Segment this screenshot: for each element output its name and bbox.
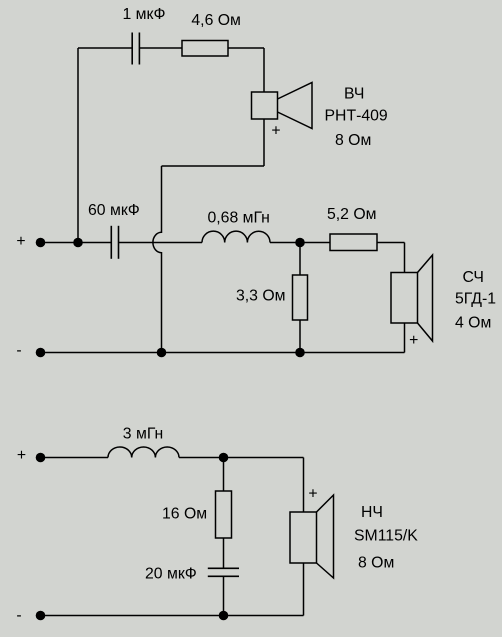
- label СЧ: [463, 269, 484, 286]
- svg-text:+: +: [409, 332, 418, 349]
- svg-text:СЧ: СЧ: [463, 269, 484, 286]
- svg-text:5ГД-1: 5ГД-1: [455, 291, 496, 308]
- svg-text:1 мкФ: 1 мкФ: [123, 6, 166, 23]
- speaker BA1 ВЧ horn: [278, 83, 313, 129]
- svg-text:РНТ-409: РНТ-409: [325, 108, 388, 125]
- junction node R3 on minus wire: [295, 348, 305, 358]
- plus polarity mark of ВЧ speaker: [271, 122, 280, 139]
- wire tweeter return horizontal: [162, 165, 265, 167]
- terminal node middle plus: [36, 238, 46, 248]
- value label 20 мкФ: [145, 566, 197, 583]
- label НЧ: [361, 504, 383, 521]
- junction node to R4: [219, 453, 229, 463]
- svg-text:+: +: [16, 233, 25, 250]
- terminal node middle minus: [36, 348, 46, 358]
- svg-text:0,68 мГн: 0,68 мГн: [208, 210, 270, 227]
- value label 0,68 мГн: [208, 210, 270, 227]
- label 4 Ом: [455, 315, 491, 332]
- svg-text:3,3 Ом: 3,3 Ом: [236, 288, 286, 305]
- wire capacitor C1 to resistor R1: [139, 47, 182, 49]
- wire capacitor C3 down to minus wire: [223, 576, 225, 615]
- junction node C3 on minus wire: [219, 611, 229, 621]
- terminal node bottom plus: [36, 453, 46, 463]
- svg-text:5,2 Ом: 5,2 Ом: [327, 206, 377, 223]
- terminal node bottom minus: [36, 611, 46, 621]
- svg-text:16 Ом: 16 Ом: [162, 506, 207, 523]
- wire plus terminal to inductor L2: [41, 457, 109, 459]
- svg-text:-: -: [16, 607, 21, 624]
- value label 60 мкФ: [88, 202, 140, 219]
- capacitor C2: [111, 226, 118, 259]
- label 8 Ом tweeter: [335, 132, 371, 149]
- plus polarity mark of СЧ speaker: [409, 332, 418, 349]
- wire tweeter return down with hop over mid wire: [153, 166, 162, 353]
- svg-text:4 Ом: 4 Ом: [455, 315, 491, 332]
- svg-text:60 мкФ: 60 мкФ: [88, 202, 140, 219]
- label РНТ-409: [325, 108, 388, 125]
- capacitor C1: [132, 33, 139, 65]
- svg-text:SM115/K: SM115/K: [354, 528, 418, 545]
- speaker BA1 ВЧ box: [252, 92, 278, 119]
- speaker BA3 НЧ box: [290, 512, 317, 563]
- value label 1 мкФ: [123, 6, 166, 23]
- svg-text:4,6 Ом: 4,6 Ом: [191, 12, 241, 29]
- svg-text:8 Ом: 8 Ом: [335, 132, 371, 149]
- wire resistor R1 to corner: [228, 47, 264, 49]
- svg-text:НЧ: НЧ: [361, 504, 383, 521]
- junction node mid to R3: [295, 238, 305, 248]
- minus wire middle: [41, 352, 405, 354]
- plus terminal label bottom: [17, 447, 26, 464]
- svg-text:ВЧ: ВЧ: [344, 86, 364, 103]
- wire junction down to resistor R4: [223, 458, 225, 492]
- wire top branch to capacitor C1: [78, 47, 132, 49]
- wire minus wire up to woofer: [303, 563, 305, 616]
- wire inductor L2 to corner: [179, 457, 304, 459]
- wire resistor R2 to corner: [377, 242, 405, 244]
- resistor R4: [216, 491, 232, 538]
- inductor L2: [108, 447, 179, 458]
- svg-text:+: +: [271, 122, 280, 139]
- svg-text:-: -: [16, 342, 21, 359]
- svg-text:8 Ом: 8 Ом: [358, 555, 394, 572]
- value label 3,3 Ом: [236, 288, 286, 305]
- svg-text:+: +: [17, 447, 26, 464]
- svg-text:20 мкФ: 20 мкФ: [145, 566, 197, 583]
- plus terminal label middle: [16, 233, 25, 250]
- svg-text:3 мГн: 3 мГн: [123, 425, 163, 442]
- label 5ГД-1: [455, 291, 496, 308]
- minus wire bottom: [41, 615, 304, 617]
- plus polarity mark of НЧ speaker: [308, 485, 317, 502]
- svg-text:+: +: [308, 485, 317, 502]
- wire down to tweeter: [263, 48, 265, 92]
- wire capacitor C2 to inductor L1: [119, 242, 203, 244]
- resistor R1: [182, 41, 228, 57]
- wire down to midrange speaker: [404, 243, 406, 273]
- wire down to woofer: [303, 458, 305, 513]
- label SM115/K: [354, 528, 418, 545]
- speaker BA2 СЧ cone: [418, 255, 433, 341]
- speaker BA3 НЧ cone: [317, 495, 334, 578]
- resistor R2: [330, 234, 377, 251]
- wire plus terminal to capacitor C2: [41, 242, 112, 244]
- label ВЧ: [344, 86, 364, 103]
- speaker BA2 СЧ box: [391, 273, 418, 324]
- value label 4,6 Ом: [191, 12, 241, 29]
- inductor L1: [202, 231, 270, 242]
- wire resistor R3 down to minus wire: [299, 320, 301, 353]
- junction node tweeter return on minus wire: [157, 348, 167, 358]
- wire midrange speaker down to minus wire: [404, 323, 406, 353]
- junction node to top branch: [73, 238, 83, 248]
- minus terminal label middle: [16, 342, 21, 359]
- wire tweeter down: [263, 119, 265, 166]
- wire from + junction up to top branch: [77, 48, 79, 243]
- value label 16 Ом: [162, 506, 207, 523]
- wire junction down to resistor R3: [299, 243, 301, 276]
- label 8 Ом woofer: [358, 555, 394, 572]
- value label 5,2 Ом: [327, 206, 377, 223]
- wire resistor R4 to capacitor C3: [223, 538, 225, 568]
- wire inductor L1 to resistor R2: [270, 242, 330, 244]
- value label 3 мГн: [123, 425, 163, 442]
- capacitor C3: [208, 568, 239, 576]
- minus terminal label bottom: [16, 607, 21, 624]
- resistor R3: [293, 275, 308, 320]
